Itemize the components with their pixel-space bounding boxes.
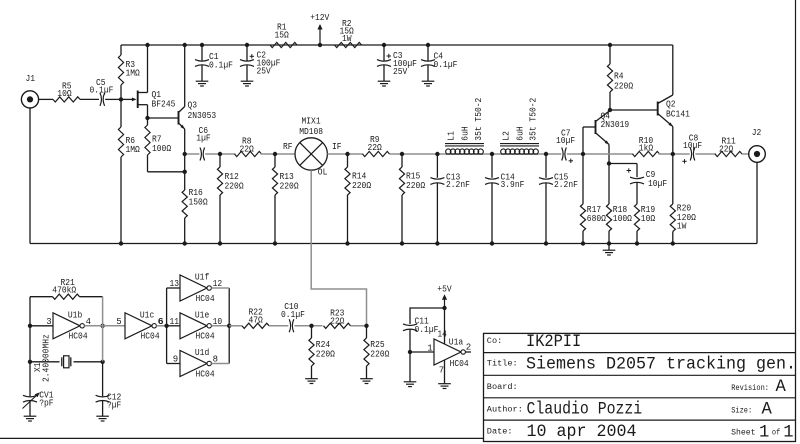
inverter U1b: [46, 311, 91, 342]
svg-text:9: 9: [173, 355, 178, 365]
svg-text:22Ω: 22Ω: [368, 143, 383, 153]
ground CV1: [24, 416, 37, 421]
svg-text:U1e: U1e: [195, 311, 209, 321]
resistor R21: [30, 278, 103, 300]
svg-text:HC04: HC04: [450, 359, 469, 369]
power +5V: [437, 285, 452, 309]
capacitor C6: [196, 126, 235, 161]
svg-text:MD108: MD108: [299, 127, 323, 137]
transistor Q1 BF245: [121, 45, 175, 118]
svg-text:A: A: [762, 401, 773, 420]
svg-text:HC04: HC04: [141, 332, 160, 342]
svg-text:Q2: Q2: [666, 100, 676, 110]
ground C2: [241, 81, 254, 86]
connector J2: [749, 128, 766, 162]
svg-text:Author:: Author:: [487, 405, 523, 415]
capacitor C5: [90, 78, 122, 106]
mixer MIX1 MD108: [283, 117, 342, 178]
svg-text:L2: L2: [502, 131, 512, 141]
wire inverter output bus: [211, 288, 229, 364]
svg-text:220Ω: 220Ω: [352, 181, 372, 191]
svg-text:7: 7: [439, 366, 444, 376]
wire emitter to C9: [609, 164, 637, 178]
ground C3: [378, 81, 391, 86]
svg-text:U1d: U1d: [195, 348, 209, 358]
svg-text:Size:: Size:: [731, 406, 752, 415]
node Q4 base tap: [581, 152, 585, 156]
resistor R20: [670, 154, 696, 244]
resistor R12: [217, 154, 244, 244]
node C13 top: [435, 152, 439, 156]
resistor R14: [345, 154, 372, 244]
node output bus: [227, 324, 231, 328]
svg-text:2: 2: [466, 343, 471, 353]
ground R25: [360, 379, 373, 384]
svg-text:U1b: U1b: [68, 311, 82, 321]
svg-text:U1f: U1f: [195, 273, 209, 283]
svg-text:680Ω: 680Ω: [587, 214, 607, 224]
svg-text:Siemens D2057 tracking gen.: Siemens D2057 tracking gen.: [526, 356, 796, 375]
wire U1c output to input bus: [156, 317, 166, 327]
resistor R3: [118, 45, 140, 99]
inductor L2: [500, 98, 539, 155]
ground R24: [305, 379, 318, 384]
node C14 top: [490, 152, 494, 156]
svg-text:220Ω: 220Ω: [225, 181, 245, 191]
svg-text:1µF: 1µF: [196, 134, 210, 144]
ground C12: [96, 416, 109, 421]
svg-text:BC141: BC141: [666, 109, 690, 119]
capacitor C13: [430, 154, 470, 244]
svg-text:220Ω: 220Ω: [406, 181, 426, 191]
svg-text:1: 1: [783, 423, 793, 442]
svg-text:35t T50-2: 35t T50-2: [474, 98, 484, 141]
svg-text:1MΩ: 1MΩ: [126, 68, 141, 78]
title Author Size: [487, 401, 773, 420]
svg-text:1: 1: [427, 343, 432, 353]
node C15 top: [544, 152, 548, 156]
svg-text:6: 6: [158, 317, 163, 327]
svg-text:1: 1: [759, 423, 769, 442]
svg-text:J1: J1: [26, 74, 36, 84]
title block border: [484, 333, 796, 441]
wire oscillator left column: [29, 297, 31, 397]
wire U1b output column: [102, 297, 104, 362]
resistor R25: [364, 326, 390, 379]
node Q1 source: [145, 116, 149, 120]
inverter U1d: [173, 348, 218, 379]
node R4 bottom: [608, 108, 612, 112]
svg-text:R4: R4: [614, 72, 624, 82]
node Q2 emitter: [671, 152, 675, 156]
svg-text:2.2nF: 2.2nF: [446, 180, 470, 190]
svg-text:?pF: ?pF: [39, 398, 53, 408]
svg-text:HC04: HC04: [196, 332, 215, 342]
svg-text:6uH: 6uH: [516, 126, 526, 140]
svg-text:0.1µF: 0.1µF: [90, 85, 114, 95]
node C6 left: [183, 152, 187, 156]
wire J2 to ground rail: [756, 163, 758, 244]
node +5V: [442, 306, 446, 310]
svg-text:HC04: HC04: [196, 369, 215, 379]
capacitor C9: [627, 168, 668, 204]
wire U1b output to U1c: [84, 317, 125, 327]
wire ground rail: [30, 243, 757, 245]
svg-text:35t T50-2: 35t T50-2: [529, 98, 539, 141]
transistor Q4 2N3019: [583, 111, 629, 164]
resistor R23: [324, 309, 367, 329]
resistor R11: [715, 137, 748, 157]
svg-text:Date:: Date:: [487, 427, 513, 437]
resistor R7: [145, 118, 185, 172]
capacitor C4: [421, 45, 457, 81]
wire U1b input: [30, 325, 53, 327]
svg-text:RF: RF: [283, 142, 293, 152]
resistor R10: [633, 136, 690, 157]
resistor R19: [634, 204, 655, 244]
ground main rail: [603, 244, 616, 256]
svg-text:1MΩ: 1MΩ: [126, 145, 141, 155]
resistor R22: [229, 307, 288, 328]
node R7 emitter tap: [183, 170, 187, 174]
transistor Q3 2N3053: [179, 45, 217, 190]
svg-text:22Ω: 22Ω: [719, 144, 734, 154]
title Co: [487, 333, 581, 352]
wire inverter input bus: [167, 288, 180, 364]
power +12V: [310, 13, 330, 45]
inductor L1: [445, 98, 484, 155]
svg-text:1W: 1W: [677, 222, 687, 232]
resistor R24: [309, 326, 336, 379]
svg-text:10µF: 10µF: [683, 141, 702, 151]
svg-text:3: 3: [46, 317, 51, 327]
svg-text:220Ω: 220Ω: [280, 181, 300, 191]
wire L1 to L2: [483, 153, 501, 155]
junction ground rail nodes: [119, 241, 675, 245]
svg-text:470kΩ: 470kΩ: [52, 285, 76, 295]
svg-text:11: 11: [170, 317, 180, 327]
node Q4 emitter: [607, 161, 611, 165]
svg-text:+5V: +5V: [437, 285, 452, 295]
resistor R1: [270, 23, 297, 48]
capacitor CV1 trimmer: [23, 391, 54, 417]
resistor R9: [363, 135, 446, 156]
svg-text:Revision:: Revision:: [731, 384, 769, 393]
svg-text:0.1µF: 0.1µF: [434, 60, 458, 70]
svg-text:Q3: Q3: [188, 101, 198, 111]
capacitor C12: [96, 362, 122, 416]
title Title: [487, 356, 796, 375]
svg-text:Title:: Title:: [487, 358, 518, 368]
svg-text:0.1µF: 0.1µF: [281, 310, 305, 320]
svg-text:Sheet: Sheet: [731, 429, 755, 438]
svg-text:U1c: U1c: [140, 311, 154, 321]
wire emitter node to C6: [185, 153, 200, 155]
svg-text:Board:: Board:: [487, 382, 518, 392]
resistor R13: [272, 154, 299, 244]
resistor R16: [182, 188, 208, 244]
inverter U1a: [434, 308, 471, 384]
node R14 top: [345, 152, 349, 156]
svg-text:U1a: U1a: [449, 338, 464, 348]
svg-text:15Ω: 15Ω: [275, 31, 290, 41]
connector J1: [21, 74, 38, 108]
capacitor C1: [195, 45, 233, 81]
node R13 top: [273, 152, 277, 156]
svg-text:IF: IF: [332, 142, 342, 152]
capacitor C14: [485, 154, 524, 244]
resistor R2: [335, 19, 362, 48]
svg-text:2N3053: 2N3053: [188, 111, 217, 121]
capacitor C15: [539, 154, 578, 244]
svg-text:of: of: [772, 429, 781, 438]
svg-text:13: 13: [170, 279, 180, 289]
svg-text:10Ω: 10Ω: [641, 214, 656, 224]
resistor R6: [118, 99, 140, 243]
node R12 top: [218, 152, 222, 156]
svg-text:+12V: +12V: [310, 13, 330, 23]
node gate: [119, 97, 123, 101]
svg-text:3.9nF: 3.9nF: [501, 180, 525, 190]
svg-text:IK2PII: IK2PII: [526, 333, 581, 352]
svg-text:10 apr 2004: 10 apr 2004: [527, 423, 637, 442]
inverter U1f: [170, 273, 223, 304]
ground C1: [196, 81, 209, 86]
svg-text:6uH: 6uH: [461, 126, 471, 140]
wire L2 to C7: [538, 153, 561, 155]
svg-text:J2: J2: [752, 128, 762, 138]
svg-text:Claudio Pozzi: Claudio Pozzi: [527, 401, 643, 420]
node U1b input: [28, 324, 32, 328]
wire to U1a input: [410, 343, 434, 353]
capacitor C3: [377, 45, 417, 81]
svg-text:10Ω: 10Ω: [57, 89, 72, 99]
svg-text:L1: L1: [447, 131, 457, 141]
node input bus: [164, 324, 168, 328]
node R24 top: [309, 324, 313, 328]
svg-text:OL: OL: [318, 167, 328, 177]
svg-text:R7: R7: [152, 135, 162, 145]
title Date Sheet: [487, 423, 794, 443]
node U1a input: [408, 350, 412, 354]
svg-text:2.2nF: 2.2nF: [554, 180, 578, 190]
ground C4: [422, 81, 435, 86]
ground U1a pin7: [438, 384, 451, 389]
svg-text:A: A: [776, 378, 787, 397]
wire mixer OL feed: [311, 170, 366, 326]
svg-text:MIX1: MIX1: [302, 117, 321, 127]
resistor R8: [235, 137, 295, 157]
capacitor C2: [240, 45, 280, 81]
capacitor C11: [403, 317, 438, 382]
ground C11: [404, 382, 417, 387]
resistor R15: [399, 154, 425, 244]
node U1b output: [100, 324, 104, 328]
svg-text:47Ω: 47Ω: [249, 315, 264, 325]
node R25 top: [364, 324, 368, 328]
svg-text:0.1µF: 0.1µF: [415, 325, 439, 335]
wire R4 to Q2 base: [610, 109, 658, 111]
svg-text:Co:: Co:: [487, 336, 502, 346]
svg-text:HC04: HC04: [196, 294, 215, 304]
svg-text:220Ω: 220Ω: [614, 82, 634, 92]
wire Q1 source to Q3 base: [148, 117, 179, 119]
svg-text:22Ω: 22Ω: [240, 145, 255, 155]
resistor R17: [580, 154, 606, 244]
wire +12V top rail: [121, 44, 673, 46]
node R15 top: [400, 152, 404, 156]
svg-text:220Ω: 220Ω: [370, 349, 390, 359]
svg-text:10µF: 10µF: [648, 179, 667, 189]
svg-text:100Ω: 100Ω: [152, 144, 172, 154]
svg-text:1kΩ: 1kΩ: [639, 144, 654, 154]
wire +5V to C11: [410, 308, 445, 324]
resistor R18: [606, 164, 632, 244]
svg-text:100Ω: 100Ω: [613, 214, 633, 224]
svg-text:5: 5: [116, 317, 121, 327]
svg-text:220Ω: 220Ω: [316, 349, 336, 359]
capacitor C7: [556, 129, 634, 164]
inverter U1c: [125, 311, 163, 342]
svg-text:BF245: BF245: [152, 99, 176, 109]
svg-text:2.40000MHz: 2.40000MHz: [42, 334, 52, 382]
svg-text:2N3019: 2N3019: [601, 120, 630, 130]
svg-text:22Ω: 22Ω: [330, 316, 345, 326]
inverter U1e: [170, 311, 223, 342]
resistor R5: [39, 82, 99, 103]
title Board Revision: [487, 378, 787, 397]
svg-text:150Ω: 150Ω: [189, 197, 209, 207]
capacitor C10: [281, 302, 323, 332]
svg-text:1W: 1W: [342, 34, 352, 44]
svg-text:10µF: 10µF: [556, 136, 575, 146]
wire mixer IF output: [327, 153, 363, 155]
svg-text:25V: 25V: [257, 67, 272, 77]
svg-text:25V: 25V: [393, 67, 408, 77]
svg-text:14: 14: [437, 330, 447, 340]
node crystal left: [28, 360, 32, 364]
wire J1 to ground rail: [29, 108, 31, 244]
svg-text:?µF: ?µF: [107, 401, 121, 411]
node crystal right: [100, 360, 104, 364]
junction top rail nodes: [145, 43, 612, 47]
resistor R4: [607, 45, 633, 110]
transistor Q2 BC141: [658, 45, 690, 154]
crystal X1: [30, 334, 103, 382]
svg-text:HC04: HC04: [69, 332, 88, 342]
svg-text:0.1µF: 0.1µF: [209, 60, 233, 70]
capacitor C8: [682, 133, 716, 163]
